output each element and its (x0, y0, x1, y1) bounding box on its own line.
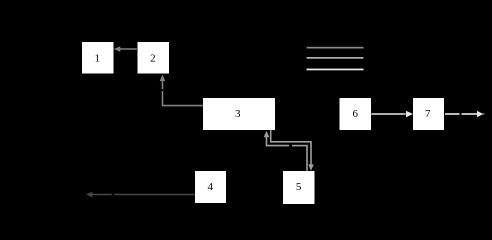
block 6 (340, 98, 372, 130)
block 1 (82, 42, 114, 74)
block 4 (195, 171, 226, 203)
block 7 (413, 98, 444, 130)
wire block3 to block2 (up arrow) (160, 75, 203, 107)
legend line silver (307, 57, 364, 59)
svg-text:1: 1 (95, 53, 101, 65)
block 2 (138, 42, 170, 74)
wire arrow block7 to output (dashed) (445, 111, 485, 117)
legend line white (307, 69, 364, 71)
svg-text:3: 3 (235, 108, 241, 120)
svg-text:2: 2 (150, 53, 156, 65)
wire arrow block4 to left (86, 192, 195, 198)
legend line gray (307, 47, 364, 49)
svg-text:6: 6 (353, 108, 359, 120)
wire block3 down to block5 (down arrow) (271, 130, 314, 171)
wire arrow block6 to block7 (371, 111, 413, 117)
wire arrow block2 to block1 (114, 46, 137, 52)
block 3 (203, 98, 275, 130)
wire block5 up to block3 (up arrow) (264, 131, 308, 171)
svg-text:5: 5 (296, 181, 302, 193)
svg-text:7: 7 (425, 108, 431, 120)
svg-text:4: 4 (208, 181, 214, 193)
block 5 (283, 171, 315, 204)
